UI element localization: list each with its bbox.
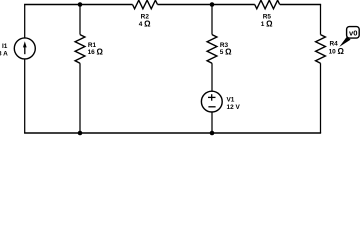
V1 minus sign xyxy=(208,106,215,108)
svg-text:v0: v0 xyxy=(349,29,357,38)
resistor R5 (horizontal, top) xyxy=(255,0,280,9)
svg-text:3 A: 3 A xyxy=(0,50,8,57)
V1 plus sign xyxy=(208,96,216,98)
resistor R2 (horizontal, top) xyxy=(133,0,158,9)
wire: R1 branch vertical xyxy=(79,5,81,134)
wire: left vertical (I1 branch) xyxy=(24,5,26,134)
svg-text:16 Ω: 16 Ω xyxy=(88,48,104,57)
current source I1 arrow xyxy=(24,45,26,54)
wire: right vertical (R4 branch) xyxy=(320,5,322,134)
resistor R1 (vertical) xyxy=(75,35,85,64)
voltage source V1 circle xyxy=(201,91,222,112)
node junction dot bottom (V1 bottom) xyxy=(210,131,215,136)
node junction dot top-mid (R3 top) xyxy=(210,2,215,7)
node v0 callout box xyxy=(347,27,360,38)
resistor R3 (vertical) xyxy=(207,35,217,64)
node v0 callout tail xyxy=(339,37,350,47)
node junction dot top-left (R1 top) xyxy=(78,2,83,7)
wire: top horizontal net xyxy=(24,4,321,6)
svg-text:10 Ω: 10 Ω xyxy=(329,47,345,56)
svg-text:1 Ω: 1 Ω xyxy=(261,19,273,28)
svg-text:12 V: 12 V xyxy=(227,104,241,111)
svg-text:5 Ω: 5 Ω xyxy=(220,48,232,57)
node junction dot bottom (R1 bottom) xyxy=(78,131,83,136)
svg-text:I1: I1 xyxy=(2,43,8,50)
svg-text:R1: R1 xyxy=(88,42,97,49)
wire: bottom horizontal net xyxy=(24,132,321,134)
current source I1 circle xyxy=(14,38,35,59)
svg-text:V1: V1 xyxy=(227,97,235,104)
svg-text:4 Ω: 4 Ω xyxy=(139,19,151,28)
white masks under components xyxy=(74,0,327,63)
wire: R3/V1 branch vertical xyxy=(211,5,213,134)
resistor R4 (vertical, right) xyxy=(316,35,326,64)
